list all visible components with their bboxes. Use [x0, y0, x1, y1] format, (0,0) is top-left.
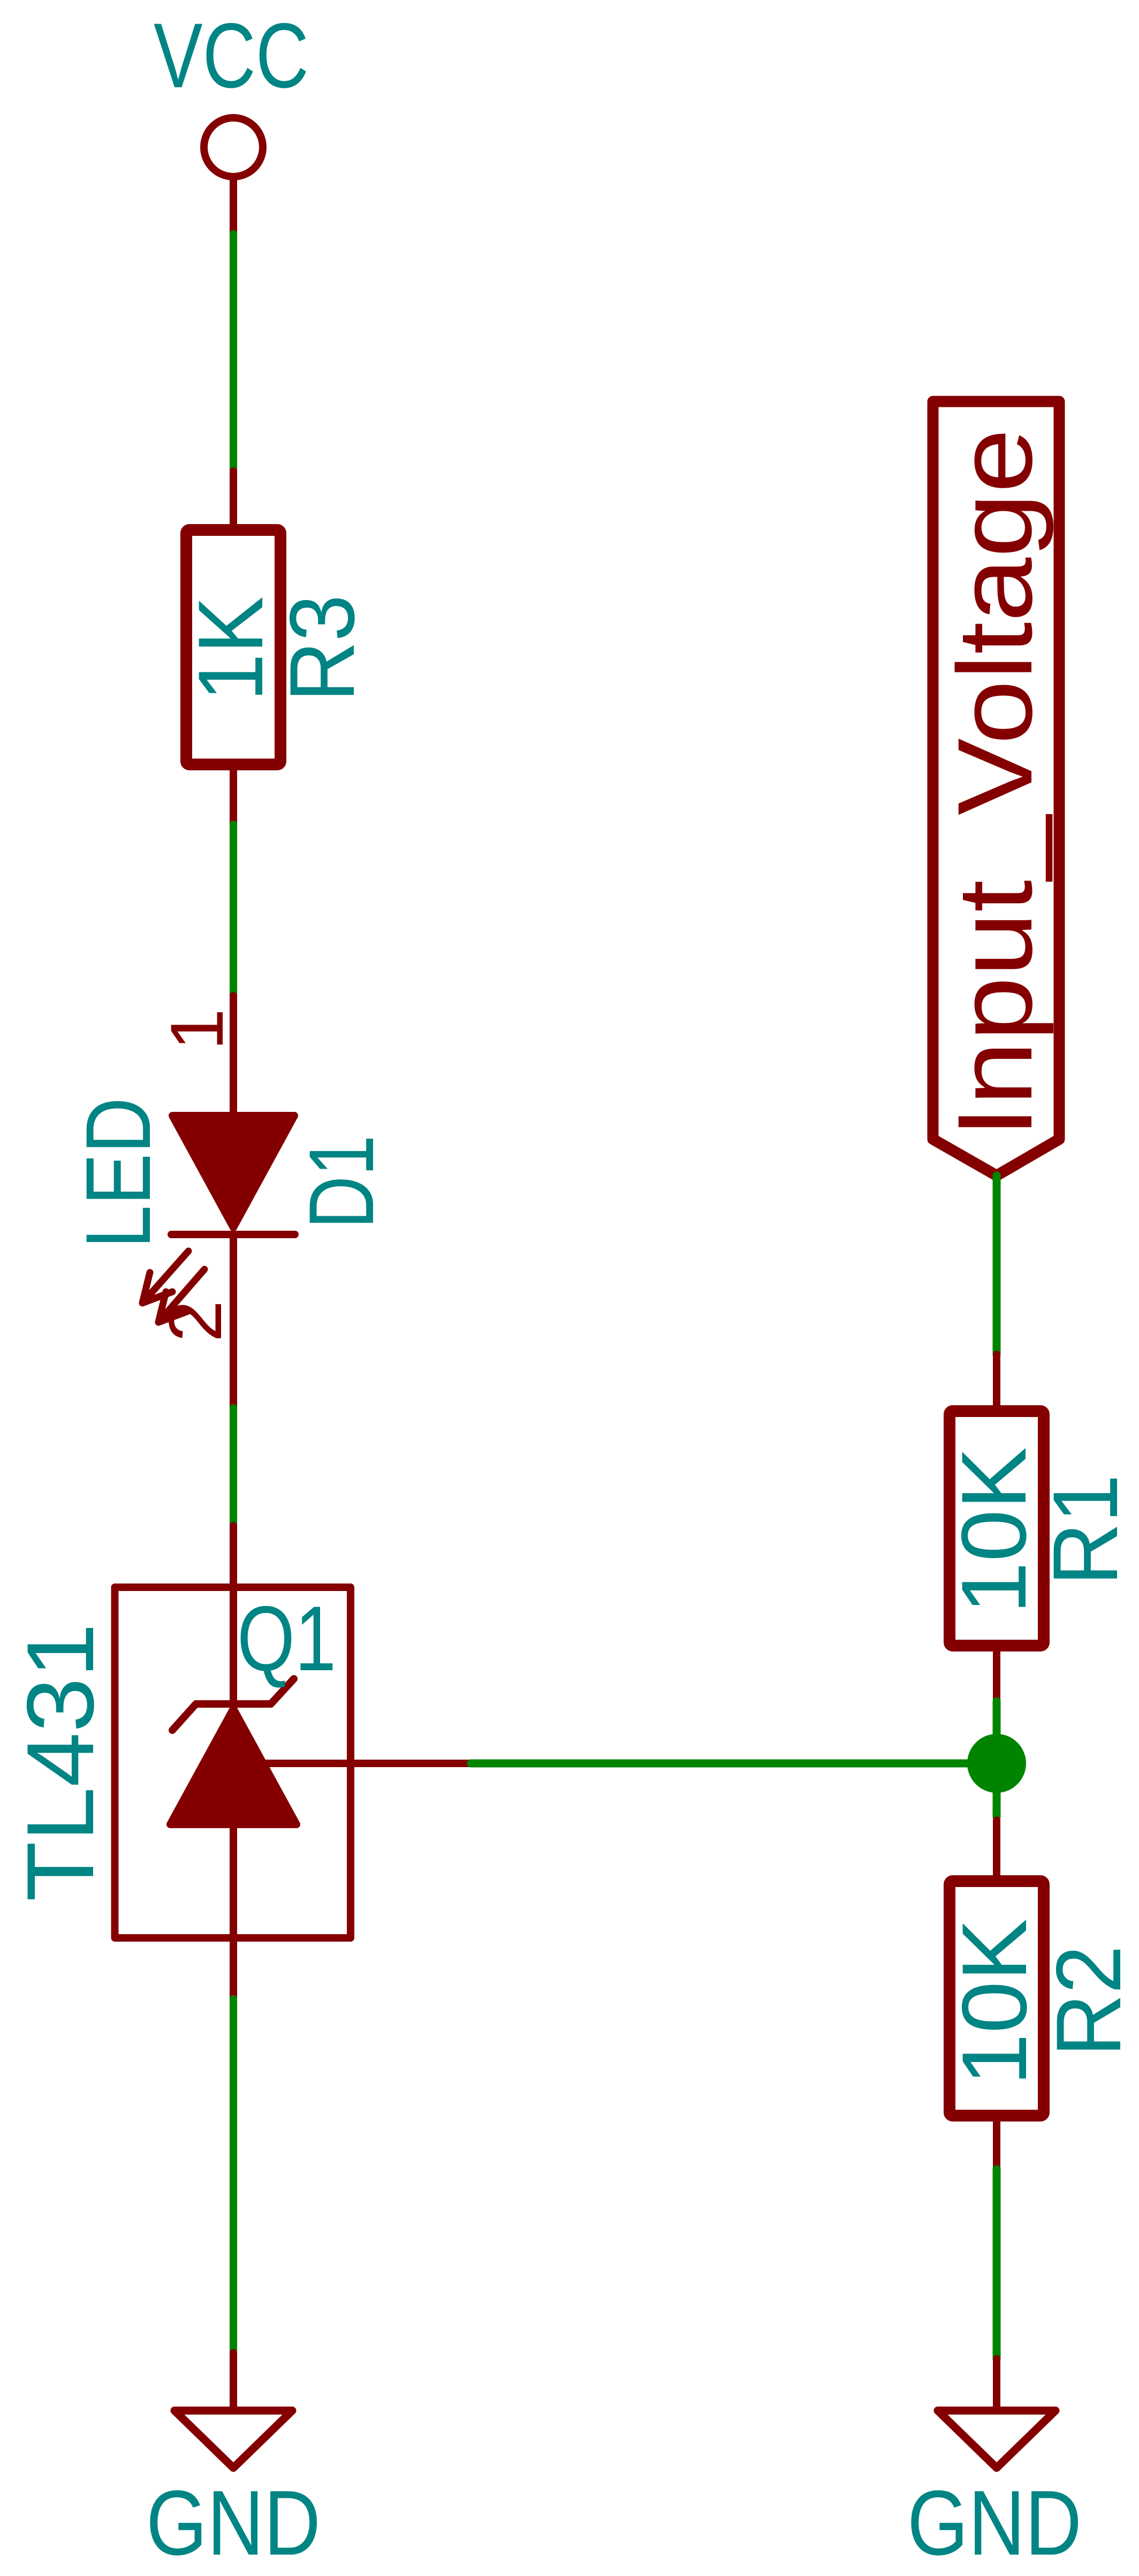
wire VCC to R3 — [230, 234, 237, 471]
svg-text:VCC: VCC — [154, 4, 309, 107]
svg-text:1K: 1K — [179, 596, 282, 701]
LED D1 triangle — [172, 1116, 294, 1228]
ground GND right pin — [993, 2359, 1000, 2409]
diode D1 pin 1 — [230, 996, 237, 1119]
resistor R3 pin 2 — [230, 764, 237, 824]
svg-text:10K: 10K — [943, 1447, 1045, 1614]
svg-text:10K: 10K — [943, 1919, 1046, 2086]
resistor R2 pin 1 — [993, 1820, 1000, 1881]
resistor R3 body — [186, 530, 280, 764]
svg-text:LED: LED — [67, 1097, 170, 1248]
global label Input_Voltage outline — [933, 401, 1059, 1176]
ground GND left pin — [230, 2353, 237, 2409]
svg-text:1: 1 — [155, 1009, 239, 1050]
svg-text:2: 2 — [153, 1300, 237, 1342]
svg-text:R2: R2 — [1037, 1945, 1139, 2057]
wire D1 to Q1 — [230, 1408, 237, 1526]
svg-text:D1: D1 — [290, 1135, 393, 1229]
wire R1 to junction — [993, 1701, 1001, 1817]
ground GND left triangle — [174, 2411, 292, 2468]
svg-text:TL431: TL431 — [7, 1623, 113, 1901]
svg-text:GND: GND — [146, 2472, 321, 2574]
TL431 Q1 zener bar — [172, 1679, 294, 1730]
svg-text:Q1: Q1 — [237, 1587, 336, 1690]
power symbol VCC circle — [204, 118, 263, 177]
resistor R3 pin 1 — [230, 471, 237, 527]
svg-text:R3: R3 — [271, 595, 374, 702]
ground GND right triangle — [938, 2411, 1056, 2468]
junction node — [967, 1734, 1026, 1793]
svg-text:R1: R1 — [1034, 1474, 1137, 1586]
TL431 Q1 triangle — [170, 1709, 297, 1824]
resistor R2 body — [950, 1881, 1044, 2116]
power symbol VCC pin — [230, 177, 237, 234]
LED D1 arrow 2 — [158, 1269, 204, 1322]
svg-text:Input_Voltage: Input_Voltage — [936, 429, 1054, 1138]
resistor R1 pin 1 — [993, 1354, 1000, 1413]
wire R3 to D1 — [230, 824, 237, 996]
wire Q1 anode to GND — [230, 1999, 237, 2353]
diode D1 pin 2 — [230, 1234, 237, 1408]
resistor R2 pin 2 — [993, 2116, 1000, 2169]
resistor R1 body — [950, 1411, 1044, 1646]
TL431 Q1 body box — [115, 1587, 351, 1938]
LED D1 cathode bar — [171, 1231, 295, 1238]
TL431 Q1 reference pin — [262, 1760, 471, 1767]
LED D1 arrow 1 — [142, 1251, 188, 1303]
resistor R1 pin 2 — [993, 1646, 1000, 1701]
wire R2 to GND — [993, 2169, 1001, 2359]
wire Input_Voltage to R1 — [993, 1176, 1001, 1354]
svg-text:GND: GND — [907, 2472, 1082, 2574]
TL431 Q1 vertical pin line — [230, 1526, 237, 1999]
wire Q1 ref to junction — [471, 1760, 997, 1768]
